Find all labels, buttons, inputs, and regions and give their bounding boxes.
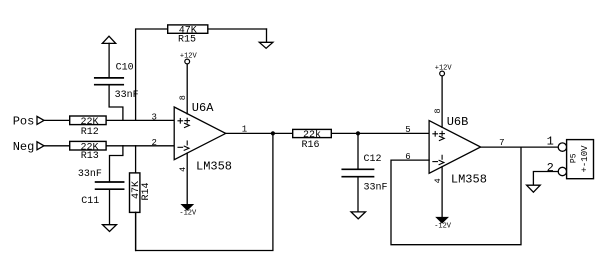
svg-text:3: 3 — [151, 113, 156, 123]
wire C11 bottom — [109, 190, 111, 225]
connector P5 body — [567, 140, 594, 179]
svg-text:U6B: U6B — [447, 115, 469, 129]
svg-text:1: 1 — [547, 135, 554, 149]
U6A input + marker — [178, 120, 183, 122]
U6B input - marker — [433, 161, 438, 163]
wire Neg to R13 to pin 2 — [44, 145, 174, 147]
svg-text:22k: 22k — [303, 129, 321, 141]
svg-text:Neg: Neg — [13, 140, 35, 154]
ground (top right) — [259, 42, 273, 48]
U6B V- power line pin 4 — [441, 167, 443, 218]
U6A V+ power line pin 8 — [186, 64, 188, 114]
svg-text:C12: C12 — [364, 154, 382, 165]
wire U6A feedback loop — [136, 133, 273, 250]
wire U6A output to U6B pin 5 — [226, 132, 429, 134]
svg-text:C10: C10 — [116, 63, 134, 74]
wire Pos to R12 to pin 3 — [44, 119, 174, 121]
ground (connector pin 2) — [527, 185, 541, 192]
-12V arrow U6B — [437, 218, 448, 223]
wire U6B output — [481, 146, 559, 148]
svg-text:R13: R13 — [81, 151, 99, 162]
svg-text:33nF: 33nF — [115, 90, 139, 101]
ground (below C12) — [351, 212, 366, 219]
svg-text:33nF: 33nF — [78, 169, 102, 180]
svg-text:+12V: +12V — [180, 53, 198, 61]
wire pin 2 to ground — [533, 172, 558, 186]
ground (below C11) — [103, 225, 117, 232]
supply symbol (top of C10) — [102, 36, 115, 43]
U6A V- power line pin 4 — [186, 153, 188, 205]
wire R15 top net (left branch down to pin3 wire) — [136, 29, 267, 120]
connector pin 1 circle — [558, 143, 566, 151]
svg-text:R14: R14 — [141, 182, 152, 200]
resistor R13 — [70, 141, 106, 150]
U6B input + marker — [433, 133, 438, 135]
connector pin 2 circle — [558, 167, 566, 175]
input pin marker Neg — [37, 142, 44, 150]
wire C12 branch — [357, 133, 359, 169]
op-amp U6B — [429, 121, 481, 174]
svg-text:+12V: +12V — [435, 65, 453, 73]
svg-text:2: 2 — [547, 161, 554, 175]
svg-text:R15: R15 — [178, 35, 196, 46]
junction C12 node — [356, 131, 360, 135]
svg-text:5: 5 — [405, 125, 410, 135]
svg-text:-12V: -12V — [434, 222, 452, 230]
svg-text:33nF: 33nF — [364, 182, 388, 193]
op-amp U6A — [174, 107, 226, 160]
U6B V+ rotated label — [440, 133, 445, 135]
svg-text:6: 6 — [405, 152, 410, 162]
svg-text:7: 7 — [499, 138, 504, 148]
resistor R16 — [293, 129, 332, 137]
wire U6B pin 6 and feedback loop — [391, 147, 521, 245]
wire C10 top — [108, 43, 110, 77]
svg-text:-12V: -12V — [179, 210, 197, 218]
wire ground drop (top right) — [266, 29, 268, 42]
capacitor C12 — [342, 168, 373, 170]
U6B V+ power line pin 8 — [441, 76, 443, 127]
wire R14 bottom — [135, 212, 137, 250]
svg-text:8: 8 — [433, 108, 443, 113]
svg-text:R12: R12 — [81, 127, 99, 138]
svg-text:R16: R16 — [301, 140, 319, 151]
wire pin2 to C11 — [110, 146, 123, 181]
svg-text:4: 4 — [433, 178, 443, 183]
U6B V- rotated label — [441, 155, 443, 159]
resistor R15 — [168, 25, 208, 33]
svg-text:+-10V: +-10V — [580, 145, 590, 173]
svg-text:C11: C11 — [81, 196, 99, 207]
svg-text:LM358: LM358 — [196, 159, 232, 173]
capacitor C10 — [95, 77, 123, 79]
svg-text:2: 2 — [151, 138, 156, 148]
svg-text:8: 8 — [178, 95, 188, 100]
wire C12 bottom — [357, 178, 359, 212]
+12V supply circle U6A — [185, 59, 190, 64]
svg-text:U6A: U6A — [192, 101, 214, 115]
svg-text:Pos: Pos — [13, 114, 35, 128]
U6A V- rotated label — [186, 141, 188, 145]
resistor R12 — [70, 116, 106, 125]
resistor R14 — [130, 173, 140, 213]
wire pin2 to R14 — [135, 146, 137, 173]
capacitor C11 — [96, 181, 124, 183]
+12V supply circle U6B — [440, 71, 445, 76]
input pin marker Pos — [37, 116, 44, 124]
U6A V+ rotated label — [185, 120, 190, 122]
-12V arrow U6A — [182, 205, 193, 210]
svg-text:P5: P5 — [570, 153, 579, 163]
svg-text:1: 1 — [242, 125, 247, 135]
svg-text:LM358: LM358 — [451, 173, 487, 187]
wire C10 bottom to pin3 net — [109, 86, 123, 121]
junction feedback node — [271, 131, 275, 135]
svg-text:4: 4 — [178, 167, 188, 172]
U6A input - marker — [178, 146, 183, 148]
